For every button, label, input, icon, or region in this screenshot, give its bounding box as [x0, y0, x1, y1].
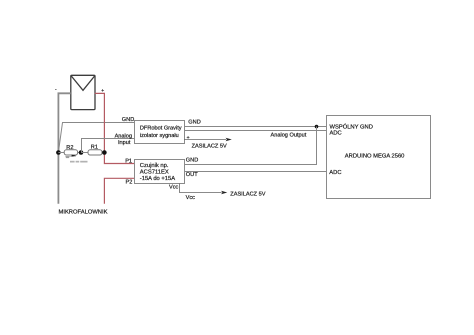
- svg-text:P2: P2: [126, 180, 133, 186]
- svg-text:MIKROFALOWNIK: MIKROFALOWNIK: [59, 209, 108, 216]
- svg-text:Analog: Analog: [115, 132, 132, 139]
- svg-text:-15A do +15A: -15A do +15A: [140, 175, 175, 182]
- svg-text:ARDUINO MEGA 2560: ARDUINO MEGA 2560: [345, 153, 405, 160]
- svg-text:ACS711EX: ACS711EX: [140, 169, 169, 176]
- wire J2 to R1: [81, 152, 88, 154]
- wire Vcc arrow to ZASILACZ 5V: [180, 184, 228, 195]
- svg-text:GND: GND: [188, 120, 200, 126]
- svg-text:Input: Input: [118, 140, 131, 146]
- box U2 current sensor ACS711EX: [135, 160, 185, 184]
- wire panel plus (red) to P1: [95, 93, 135, 163]
- svg-text:ZASILACZ 5V: ZASILACZ 5V: [192, 144, 227, 150]
- node J4: [315, 125, 319, 129]
- node J3: [102, 150, 107, 155]
- node J1: [56, 150, 61, 155]
- wire GND return from J4 down to sensor GND: [185, 127, 317, 165]
- svg-text:GND: GND: [122, 117, 134, 123]
- wire OUT to lower ADC: [185, 171, 327, 173]
- svg-text:DFRobot Gravity: DFRobot Gravity: [140, 125, 182, 132]
- svg-text:ADC: ADC: [329, 169, 341, 176]
- box U1 DFRobot Gravity isolator: [135, 121, 185, 144]
- wire +5V arrow from U1: [184, 138, 232, 142]
- node J2: [79, 150, 84, 155]
- photovoltaic panel PV1: [71, 75, 95, 109]
- wire U1 GND to Arduino WSPOLNY GND: [184, 126, 327, 128]
- svg-text:+: +: [187, 135, 190, 141]
- svg-text:WSPÓLNY GND: WSPÓLNY GND: [330, 123, 373, 131]
- resistor R1: [88, 145, 102, 155]
- wire R2 to J2: [78, 152, 81, 154]
- wire J1 to R2: [58, 152, 64, 154]
- svg-text:OUT: OUT: [186, 172, 198, 178]
- wire analog output to ADC: [184, 130, 327, 132]
- svg-text:Vcc: Vcc: [169, 185, 179, 191]
- svg-text:GND: GND: [186, 158, 198, 164]
- wire panel minus down to microwave: [58, 93, 70, 204]
- value label (tiny, under R2): [70, 161, 88, 163]
- svg-text:ZASILACZ 5V: ZASILACZ 5V: [230, 192, 265, 198]
- svg-text:izolator sygnału: izolator sygnału: [140, 132, 179, 139]
- wire P2 to microwave (red): [104, 178, 134, 204]
- svg-text:Vcc: Vcc: [186, 195, 196, 201]
- resistor R2: [64, 145, 77, 158]
- svg-text:Analog Output: Analog Output: [271, 132, 307, 139]
- svg-text:Czujnik np.: Czujnik np.: [140, 162, 169, 169]
- svg-text:ADC: ADC: [330, 130, 342, 137]
- box U3 Arduino Mega 2560: [327, 116, 431, 199]
- svg-text:P1: P1: [125, 159, 132, 165]
- wire R1 to J3: [102, 152, 104, 154]
- wire analog input from J2 to U1: [82, 139, 135, 153]
- wire GND from U1 to divider node: [59, 123, 135, 152]
